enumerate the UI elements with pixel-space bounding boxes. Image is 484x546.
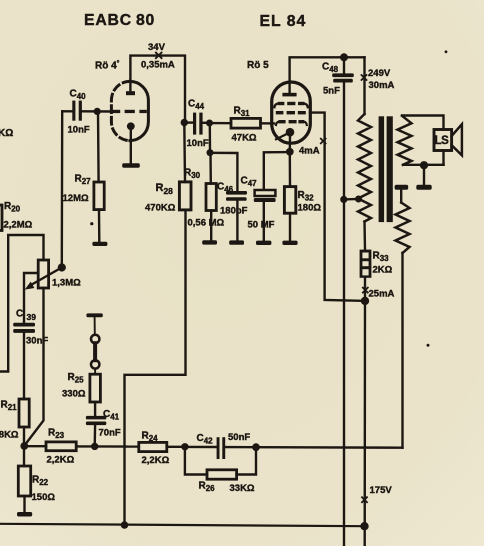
node cathode	[286, 148, 294, 156]
svg-text:1,3MΩ: 1,3MΩ	[52, 278, 81, 289]
speaker LS box	[434, 130, 452, 151]
tube EL84 plate	[282, 93, 296, 97]
marker 34V	[156, 53, 162, 59]
svg-text:30mA: 30mA	[369, 80, 395, 91]
svg-text:34V: 34V	[148, 42, 166, 53]
svg-text:EABC80: EABC80	[84, 12, 155, 29]
resistor R30	[206, 184, 216, 211]
svg-text:50 MF: 50 MF	[248, 220, 275, 231]
wire jack to R25	[94, 369, 96, 375]
svg-text:12MΩ: 12MΩ	[63, 193, 89, 204]
wire R30 to ground	[210, 211, 212, 241]
node bus / R28 branch	[121, 521, 129, 529]
wire plate to primary	[363, 57, 365, 114]
wire C48 long down	[343, 83, 345, 546]
speck	[427, 344, 430, 347]
resistor R33	[360, 250, 372, 278]
tube EL84 cathode	[286, 128, 295, 137]
capacitor C46	[226, 191, 247, 201]
wire node to R23	[24, 445, 46, 447]
wire R24 to node	[167, 446, 185, 448]
svg-text:2,2KΩ: 2,2KΩ	[47, 455, 75, 466]
potentiometer 1,3MΩ	[38, 260, 48, 288]
wire wiper line (C40 to pot wiper)	[61, 111, 64, 267]
resistor R27	[94, 182, 104, 210]
ground (R22)	[17, 512, 32, 517]
wire C39 to R21	[23, 333, 25, 399]
speck	[445, 50, 448, 53]
svg-text:2KΩ: 2KΩ	[373, 265, 393, 276]
wire C40 right to grid	[82, 110, 112, 113]
resistor R22	[18, 466, 30, 496]
pickup terminal bar	[86, 313, 102, 317]
jack contact circle lower	[91, 360, 99, 368]
speaker cone	[452, 124, 462, 155]
wire feedback to right	[256, 446, 403, 449]
svg-text:Rö 5: Rö 5	[247, 60, 269, 71]
wire 175V line	[364, 301, 367, 546]
svg-text:25mA: 25mA	[369, 289, 395, 300]
tube EABC80 cathode	[127, 122, 135, 130]
resistor R32	[284, 187, 295, 214]
cathode lead diagonal	[276, 133, 288, 139]
svg-text:0,56 MΩ: 0,56 MΩ	[188, 218, 225, 229]
svg-text:180pF: 180pF	[220, 206, 248, 217]
wire loop to potentiometer	[0, 235, 44, 372]
wire node to R31	[210, 122, 232, 124]
svg-text:180Ω: 180Ω	[298, 203, 322, 214]
wire R31 to EL84 grid	[261, 122, 275, 124]
wire node to R24	[95, 445, 139, 448]
wire node to R22	[23, 446, 25, 466]
svg-text:C: C	[16, 309, 23, 320]
wire node to R30	[209, 153, 212, 184]
tube EL84 grid g3	[278, 102, 305, 105]
svg-text:470KΩ: 470KΩ	[145, 203, 176, 214]
node 25mA	[361, 297, 369, 305]
wire pot bottom	[25, 288, 44, 445]
wire B+ bus bottom	[0, 524, 365, 526]
capacitor C44	[193, 113, 203, 135]
resistor R21	[19, 399, 29, 427]
wire C44 to node	[203, 122, 210, 124]
wire EL84 plate to top	[290, 57, 365, 93]
wiper arrow	[30, 268, 62, 286]
svg-text:70nF: 70nF	[99, 428, 121, 439]
resistor R28	[179, 182, 191, 210]
wire secondary top loop	[402, 116, 444, 165]
ground (feedback coil)	[395, 185, 409, 190]
node C48 / primary tap	[340, 196, 347, 203]
svg-text:2,2KΩ: 2,2KΩ	[142, 455, 170, 466]
wire cathode down	[130, 129, 132, 163]
svg-text:4mA: 4mA	[299, 146, 320, 157]
wire C41 to node	[93, 425, 96, 446]
wire grid node down to R27	[97, 111, 100, 182]
tube EL84 grid g1	[279, 120, 305, 123]
asterisk 4mA	[321, 139, 326, 144]
capacitor C40	[72, 101, 82, 121]
wire feedback down to bottom wire	[401, 253, 403, 448]
capacitor C39	[13, 323, 35, 333]
ground (C47)	[256, 241, 271, 245]
transformer primary winding	[358, 114, 371, 222]
ground (R27)	[92, 242, 107, 246]
tube EABC80 envelope	[130, 81, 149, 140]
wire R26 to right node	[237, 447, 256, 474]
node R24/C42/R26	[181, 443, 188, 450]
wire C48 top	[343, 57, 345, 73]
svg-text:2,2MΩ: 2,2MΩ	[4, 220, 33, 231]
svg-text:30nF: 30nF	[26, 336, 48, 347]
resistor R26	[207, 470, 237, 479]
tube EL84 grid g2	[276, 111, 306, 114]
svg-text:249V: 249V	[368, 68, 391, 79]
resistor R31	[231, 118, 261, 128]
svg-text:50nF: 50nF	[228, 432, 250, 443]
jack contact circle upper	[91, 335, 99, 343]
svg-text:KΩ: KΩ	[0, 128, 13, 139]
wire ground to feedback coil	[400, 190, 402, 203]
ground (secondary)	[416, 185, 431, 190]
capacitor C42	[217, 437, 226, 459]
wire node to C46	[210, 153, 237, 191]
asterisk 25mA	[363, 288, 368, 293]
svg-text:39: 39	[27, 312, 37, 322]
svg-text:150Ω: 150Ω	[32, 492, 56, 503]
capacitor C48	[332, 73, 354, 82]
svg-text:5nF: 5nF	[323, 86, 340, 97]
wire node to C42	[185, 446, 217, 449]
node R30/C46	[207, 149, 214, 156]
wire R27 to ground	[98, 210, 101, 242]
node C44 left	[181, 119, 188, 126]
node plate wire / C48	[340, 53, 348, 61]
node C42/R26 right	[252, 443, 260, 451]
wire R23 to node	[76, 445, 95, 447]
asterisk 175V	[362, 497, 367, 502]
wire R33 to node	[364, 278, 366, 301]
asterisk 249V	[362, 75, 367, 80]
ground (EABC80 cathode)	[122, 163, 140, 167]
tube EABC80 plate	[126, 91, 135, 95]
node bus / 175V line	[360, 522, 368, 530]
node primary tap	[355, 196, 362, 203]
capacitor C47 (electrolytic)	[255, 190, 276, 196]
capacitor C41	[86, 416, 106, 425]
node pot wiper	[58, 263, 66, 271]
resistor R24	[139, 442, 167, 451]
wire R28 top to plate node	[183, 123, 186, 182]
wire R22 to ground	[23, 496, 25, 512]
wire terminal to jack	[94, 317, 96, 334]
wire node down to R30	[209, 123, 212, 153]
wire tap	[344, 198, 358, 201]
wire pot left tap	[24, 273, 38, 323]
wire R26 branch left	[185, 447, 207, 475]
wire C40 left	[62, 110, 72, 112]
wire node to C44	[184, 121, 193, 123]
wire C42 to node	[225, 446, 256, 449]
node C44 right	[206, 120, 213, 127]
svg-text:330Ω: 330Ω	[62, 389, 86, 400]
wire EL84 screen grid	[310, 113, 361, 301]
node feedback left	[20, 442, 28, 450]
svg-text:68KΩ: 68KΩ	[0, 430, 19, 441]
svg-text:10nF: 10nF	[187, 138, 209, 149]
svg-text:47KΩ: 47KΩ	[232, 133, 257, 144]
ground (C46)	[229, 240, 244, 244]
wire R25 to C41	[94, 402, 96, 416]
feedback winding	[396, 203, 410, 254]
wire R21 to node	[23, 427, 25, 446]
ground (R32)	[282, 241, 297, 245]
jack stem	[93, 343, 97, 360]
speck	[90, 222, 93, 225]
wire primary to R33	[363, 222, 366, 250]
wire R28 bottom branch	[125, 210, 186, 525]
svg-text:33KΩ: 33KΩ	[230, 483, 255, 494]
wire cathode to C47	[264, 152, 290, 190]
wire secondary bottom	[403, 164, 444, 166]
ground (R30)	[202, 240, 217, 244]
node secondary ground	[420, 161, 428, 169]
wire C46 to ground	[236, 201, 238, 241]
wire to ground	[423, 165, 425, 185]
svg-text:175V: 175V	[370, 485, 393, 496]
wire cathode to R32	[289, 152, 292, 187]
svg-text:Rö 4°: Rö 4°	[95, 60, 120, 72]
wire C47 to ground	[263, 202, 265, 241]
tube EABC80 grid (dashes)	[112, 110, 147, 113]
tube EL84 envelope	[272, 82, 311, 143]
resistor R23	[46, 442, 76, 451]
transformer secondary winding	[398, 116, 412, 165]
node grid junction	[94, 108, 101, 115]
svg-text:10nF: 10nF	[68, 125, 90, 136]
svg-text:0,35mA: 0,35mA	[141, 60, 175, 71]
wire cathode down	[289, 136, 292, 152]
wire R32 to ground	[289, 213, 291, 240]
resistor R20 (cut off at edge)	[0, 205, 2, 231]
wire plate to top	[130, 56, 185, 123]
svg-text:LS: LS	[435, 135, 450, 147]
node R23/R24/C41	[91, 443, 98, 450]
transformer core	[379, 116, 385, 222]
resistor R25	[90, 374, 101, 402]
